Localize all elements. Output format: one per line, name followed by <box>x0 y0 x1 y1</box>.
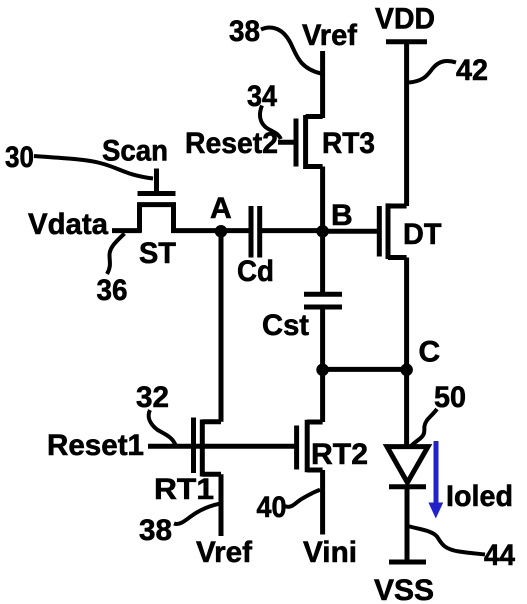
wire C row to RT2 <box>320 369 325 422</box>
svg-text:VDD: VDD <box>375 3 435 36</box>
svg-text:RT2: RT2 <box>311 438 368 471</box>
svg-text:36: 36 <box>97 274 128 307</box>
transistor RT1 channel <box>200 420 205 477</box>
transistor RT1 source step <box>202 472 221 477</box>
diode OLED cathode bar <box>389 484 426 489</box>
wire Vref to RT3 <box>320 51 325 118</box>
leader 38 bottom <box>174 504 219 524</box>
svg-text:38: 38 <box>139 514 172 547</box>
svg-text:Scan: Scan <box>102 135 168 168</box>
leader 50 <box>411 409 437 446</box>
transistor RT3 channel <box>303 115 308 169</box>
transistor RT3 source step <box>306 164 323 169</box>
svg-text:B: B <box>331 199 353 232</box>
wire Reset1 to RT2 gate <box>148 444 297 449</box>
wire C to OLED <box>404 370 409 447</box>
wire OLED to VSS <box>405 489 410 560</box>
transistor DT drain step <box>388 204 407 209</box>
svg-text:Vref: Vref <box>302 19 358 52</box>
wire Reset2 to RT3 gate <box>278 140 296 145</box>
node C dot <box>400 364 413 377</box>
svg-text:32: 32 <box>136 381 169 414</box>
transistor RT1 gate bar <box>191 418 196 474</box>
transistor DT channel <box>386 203 391 259</box>
transistor RT2 source step <box>307 468 322 473</box>
wire VDD to DT <box>404 42 409 206</box>
svg-text:44: 44 <box>484 539 515 572</box>
svg-text:Reset1: Reset1 <box>47 429 144 462</box>
capacitor Cst <box>304 294 342 307</box>
svg-text:RT3: RT3 <box>322 127 375 160</box>
transistor ST channel <box>140 205 174 233</box>
svg-text:A: A <box>210 192 232 225</box>
svg-text:30: 30 <box>5 141 34 174</box>
svg-text:38: 38 <box>229 15 260 48</box>
wire Vdata to ST <box>112 228 141 233</box>
svg-text:Vini: Vini <box>303 536 357 569</box>
transistor RT2 gate bar <box>294 426 299 470</box>
transistor DT gate bar <box>377 206 382 257</box>
svg-text:C: C <box>419 336 441 369</box>
leader 40 <box>285 490 320 507</box>
svg-text:Reset2: Reset2 <box>185 127 278 160</box>
wire Cst to C row <box>320 309 325 369</box>
wire A to RT1 <box>219 231 224 421</box>
VDD rail bar <box>386 39 427 44</box>
svg-text:Vdata: Vdata <box>28 208 108 241</box>
leader 44 <box>408 526 485 555</box>
wire ST to Cd <box>171 228 249 233</box>
svg-text:Ioled: Ioled <box>446 480 513 513</box>
transistor ST gate bar <box>138 191 176 196</box>
svg-text:RT1: RT1 <box>154 473 214 506</box>
transistor RT2 channel <box>305 420 310 473</box>
wire RT1 source <box>219 474 224 536</box>
wire Cd to B <box>262 228 322 233</box>
svg-text:Cd: Cd <box>237 255 274 288</box>
leader 38 top <box>261 28 321 74</box>
svg-text:42: 42 <box>456 54 488 87</box>
transistor RT2 drain step <box>307 420 322 425</box>
leader 34 <box>260 106 281 140</box>
wire DT to C <box>404 258 409 369</box>
wire B to Cst <box>320 231 325 292</box>
svg-text:DT: DT <box>403 218 442 251</box>
wire B to DT gate <box>323 229 378 234</box>
wire RT3 to B <box>320 167 325 230</box>
svg-text:50: 50 <box>434 381 466 414</box>
transistor RT3 gate bar <box>294 119 299 167</box>
leader 42 <box>409 61 456 82</box>
transistor DT source step <box>388 255 407 260</box>
current arrow Ioled <box>428 441 443 519</box>
VSS terminal bar <box>389 560 426 565</box>
svg-text:40: 40 <box>257 491 287 524</box>
capacitor Cd <box>251 206 260 258</box>
node B dot <box>316 225 329 238</box>
svg-text:Cst: Cst <box>262 309 309 342</box>
transistor ST gate stub <box>154 169 159 194</box>
svg-text:VSS: VSS <box>374 574 434 604</box>
node dot left C row <box>316 364 329 377</box>
node A dot <box>215 225 228 238</box>
leader 32 <box>149 410 176 445</box>
leader 30 <box>34 156 153 179</box>
wire C row <box>323 367 407 372</box>
diode OLED triangle <box>387 447 428 483</box>
svg-text:ST: ST <box>139 237 176 270</box>
svg-text:Vref: Vref <box>196 536 253 569</box>
wire RT2 source <box>320 470 325 535</box>
transistor RT1 drain step <box>202 419 221 424</box>
transistor RT3 drain step <box>306 114 323 119</box>
leader 36 <box>107 234 125 275</box>
